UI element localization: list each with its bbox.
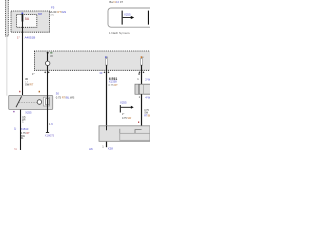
svg-text:A6: A6 xyxy=(89,147,93,150)
svg-text:A4051B: A4051B xyxy=(25,36,36,40)
svg-text:X18075: X18075 xyxy=(45,134,55,138)
svg-text:2 W: 2 W xyxy=(145,78,150,82)
svg-text:0.75 SW: 0.75 SW xyxy=(122,117,132,120)
svg-text:5A: 5A xyxy=(25,17,30,21)
svg-text:X28: X28 xyxy=(108,146,113,150)
svg-text:RT/BL: RT/BL xyxy=(144,115,150,118)
svg-text:1: 1 xyxy=(137,77,139,81)
svg-text:1): 1) xyxy=(14,128,16,131)
svg-text:F5: F5 xyxy=(51,5,55,9)
svg-text:1 Nach Sy/stem.: 1 Nach Sy/stem. xyxy=(109,31,130,35)
svg-text:1*: 1* xyxy=(32,72,34,76)
svg-text:1*: 1* xyxy=(122,113,124,116)
svg-text:30: 30 xyxy=(99,71,102,75)
svg-text:0.75: 0.75 xyxy=(49,14,54,17)
svg-text:0.75 RT/BL WS: 0.75 RT/BL WS xyxy=(56,95,75,99)
svg-text:1: 1 xyxy=(139,95,141,99)
svg-text:M8: M8 xyxy=(38,12,42,16)
svg-text:BaX110 07: BaX110 07 xyxy=(109,0,123,4)
svg-text:1*: 1* xyxy=(17,35,21,39)
svg-text:30: 30 xyxy=(25,77,29,81)
svg-text:30: 30 xyxy=(56,92,60,96)
svg-text:0.75 RT: 0.75 RT xyxy=(109,83,119,87)
svg-text:X1338: X1338 xyxy=(109,80,117,84)
svg-text:31: 31 xyxy=(14,147,18,150)
svg-text:X1813: X1813 xyxy=(21,127,29,131)
svg-text:X255: X255 xyxy=(25,110,32,114)
svg-text:1: 1 xyxy=(102,145,104,149)
svg-text:1 6: 1 6 xyxy=(49,122,53,126)
svg-text:X255: X255 xyxy=(120,100,127,104)
svg-text:X255: X255 xyxy=(124,12,131,16)
svg-text:4 W: 4 W xyxy=(145,95,150,99)
svg-text:SW/RT: SW/RT xyxy=(25,82,34,86)
